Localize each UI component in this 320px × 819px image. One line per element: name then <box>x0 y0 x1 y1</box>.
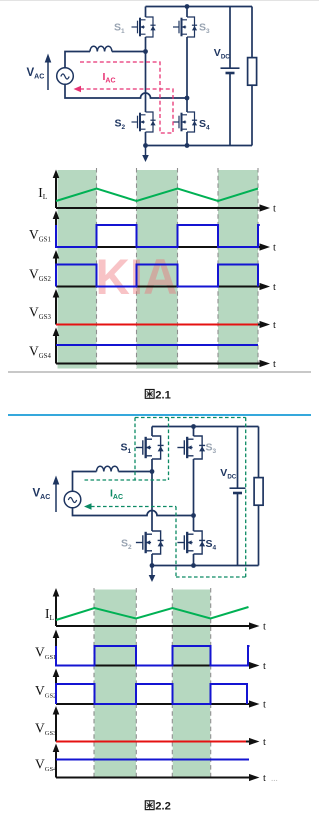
transistor S1 <box>132 17 156 37</box>
label IAC (teal) <box>110 488 123 502</box>
arrow: return current marker below bottom rail <box>142 146 149 162</box>
label IL (panel 2) <box>45 606 55 622</box>
label S2 <box>115 118 126 132</box>
label VAC <box>27 67 45 81</box>
wire: S1 drain to top rail (circuit 2) <box>151 427 153 437</box>
trace IL inductor current (panel 1, green) <box>56 189 258 202</box>
node: inductor junction on left leg <box>143 49 148 54</box>
label S1 <box>114 22 125 36</box>
resistor R load (circuit 2) <box>254 427 263 566</box>
wire: AC source bottom to right leg midpoint (crossover hop) <box>65 84 187 98</box>
wire: left leg S1 source to S2 drain <box>145 37 147 112</box>
arrow: return current marker below bottom rail (circuit 2) <box>149 566 156 582</box>
label VGS3 (panel 2) <box>35 720 56 737</box>
axis VGS3 (panel 2) <box>53 706 266 748</box>
wire: S4 source to bottom rail (circuit 2) <box>193 554 195 566</box>
node: S2 source on bottom rail <box>143 143 148 148</box>
axis VGS3 (panel 1) <box>53 289 276 331</box>
AC source V1 (circuit 2) <box>64 491 81 508</box>
label VGS4 (panel 1) <box>29 343 51 360</box>
label VDC <box>214 47 230 61</box>
trace IL inductor current (panel 2, green) <box>56 607 249 620</box>
label VGS2 (panel 1) <box>29 266 51 283</box>
svg-text:2.1: 2.1 <box>155 389 171 401</box>
label VGS4 (panel 2) <box>35 756 57 773</box>
inductor L1 <box>90 46 112 51</box>
wire: bottom DC rail (circuit 1) <box>146 145 253 147</box>
svg-text:t: t <box>263 622 266 633</box>
node: inductor junction on left leg (circuit 2) <box>150 469 155 474</box>
wire: S1 drain to top rail <box>145 7 147 18</box>
label VGS1 (panel 1) <box>29 227 51 244</box>
battery VDC: positive plate <box>221 7 240 69</box>
wire: S2 source to bottom rail <box>145 132 147 146</box>
axis VGS4 (panel 1) <box>53 328 276 371</box>
separator line (cyan) <box>8 414 311 416</box>
label S3 <box>199 22 210 36</box>
wire: S3 drain to top rail <box>186 7 188 18</box>
separator line (grey) <box>8 371 311 373</box>
wire: inductor to left leg midpoint (circuit 2) <box>118 471 152 473</box>
battery VDC: negative plate (circuit 2) <box>233 493 242 566</box>
axis VGS2 (panel 1) <box>53 250 276 293</box>
wire: inductor to left leg midpoint <box>112 51 146 53</box>
dashed gridlines (panel 1) <box>97 168 259 369</box>
wire: S4 source to bottom rail <box>186 132 188 146</box>
transistor S3 <box>173 17 197 37</box>
trace VGS4 held high (panel 1, blue) <box>56 344 258 346</box>
dashed gridlines (panel 2) <box>94 588 211 778</box>
transistor S1 (circuit 2) <box>136 436 164 459</box>
resistor R load <box>248 7 257 146</box>
node: S4 source on bottom rail <box>185 143 190 148</box>
trace VGS3 held low (panel 2, red) <box>56 741 246 743</box>
axis VGS1 (panel 1) <box>53 211 276 254</box>
label S1 (circuit 2) <box>121 442 132 456</box>
arrow head: IAC direction (pink) <box>74 86 82 92</box>
svg-text:t: t <box>263 773 266 784</box>
svg-text:t: t <box>263 700 266 711</box>
svg-text:t: t <box>273 359 276 370</box>
axis VGS2 (panel 2) <box>53 669 266 711</box>
axis VGS1 (panel 2) <box>53 630 266 673</box>
label VAC (circuit 2) <box>33 487 51 501</box>
wire: AC source top to inductor <box>65 52 90 68</box>
transistor S4 <box>173 112 197 132</box>
caption 图2.2 <box>145 801 171 813</box>
label VGS2 (panel 2) <box>35 683 56 700</box>
inductor L1 (circuit 2) <box>97 466 119 471</box>
battery VDC: positive plate (circuit 2) <box>230 427 246 489</box>
wire: top DC rail (circuit 1) <box>146 6 253 8</box>
wire: AC source bottom to right leg midpoint (crossover hop, circuit 2) <box>73 508 194 516</box>
conduction interval shading (panel 1) <box>58 170 259 369</box>
trace VGS4 held high (panel 2, blue) <box>56 759 249 761</box>
AC source V1 <box>57 68 74 85</box>
svg-text:t: t <box>263 737 266 748</box>
arrow head: IAC direction (teal) <box>84 503 92 509</box>
current loop IAC dashed path (pink) <box>79 62 173 133</box>
node: S3 drain on top rail (circuit 2) <box>191 424 196 429</box>
battery VDC: negative plate <box>226 73 235 146</box>
svg-text:t: t <box>263 661 266 672</box>
svg-text:t: t <box>273 282 276 293</box>
svg-text:2.2: 2.2 <box>155 801 171 813</box>
transistor S2 <box>132 112 156 132</box>
svg-text:...: ... <box>271 773 278 783</box>
label S2 (circuit 2) <box>121 538 132 552</box>
node: S2 source on bottom rail (circuit 2) <box>150 563 155 568</box>
wire: right leg S3 source to S4 drain <box>186 37 188 112</box>
wire: left leg S1 source to S2 drain (circuit 2) <box>151 459 153 531</box>
wire: bottom DC rail (circuit 2) <box>152 565 259 567</box>
transistor S4 (circuit 2) <box>177 531 205 554</box>
transistor S3 (circuit 2) <box>177 436 205 459</box>
trace VGS2 gate drive (panel 2, blue) <box>56 684 247 704</box>
label S3 (circuit 2) <box>206 442 217 456</box>
current loop IAC dashed path (teal) <box>85 418 246 578</box>
trace VGS2 gate drive (panel 1, blue) <box>56 265 258 287</box>
arrow: VAC polarity arrow <box>45 54 52 91</box>
label VGS3 (panel 1) <box>29 304 51 321</box>
trace VGS1 gate drive (panel 2, blue) <box>56 646 250 666</box>
axis IL (panel 1) <box>53 170 276 215</box>
trace VGS3 held low (panel 1, red) <box>56 324 258 326</box>
node: AC return junction on right leg (circuit 2) <box>191 513 196 518</box>
svg-text:t: t <box>273 320 276 331</box>
conduction interval shading (panel 2) <box>95 590 211 778</box>
node: S3 drain on top rail <box>185 4 190 9</box>
node: AC return junction on right leg <box>185 96 190 101</box>
axis IL (panel 2) <box>53 588 266 633</box>
label S4 <box>199 118 210 132</box>
wire: S3 drain to top rail (circuit 2) <box>193 427 195 437</box>
wire: top DC rail (circuit 2) <box>152 426 259 428</box>
label S4 (circuit 2) <box>206 538 217 552</box>
wire: S2 source to bottom rail (circuit 2) <box>151 554 153 566</box>
wire: AC source top to inductor (circuit 2) <box>73 472 97 492</box>
label IL (panel 1) <box>38 185 48 201</box>
page top edge <box>0 0 319 2</box>
svg-text:t: t <box>273 243 276 254</box>
label VGS1 (panel 2) <box>35 644 56 661</box>
svg-text:t: t <box>273 204 276 215</box>
label VDC (circuit 2) <box>220 467 236 481</box>
caption 图2.1 <box>145 389 171 401</box>
transistor S2 (circuit 2) <box>136 531 164 554</box>
node: S4 source on bottom rail (circuit 2) <box>191 563 196 568</box>
axis VGS4 (panel 2) <box>53 744 278 785</box>
label IAC (pink) <box>103 71 116 85</box>
wire: right leg S3 source to S4 drain (circuit 2) <box>193 459 195 531</box>
arrow: VAC polarity arrow (circuit 2) <box>53 476 60 513</box>
trace VGS1 gate drive (panel 1, blue) <box>56 225 260 247</box>
watermark KIA <box>96 249 178 305</box>
